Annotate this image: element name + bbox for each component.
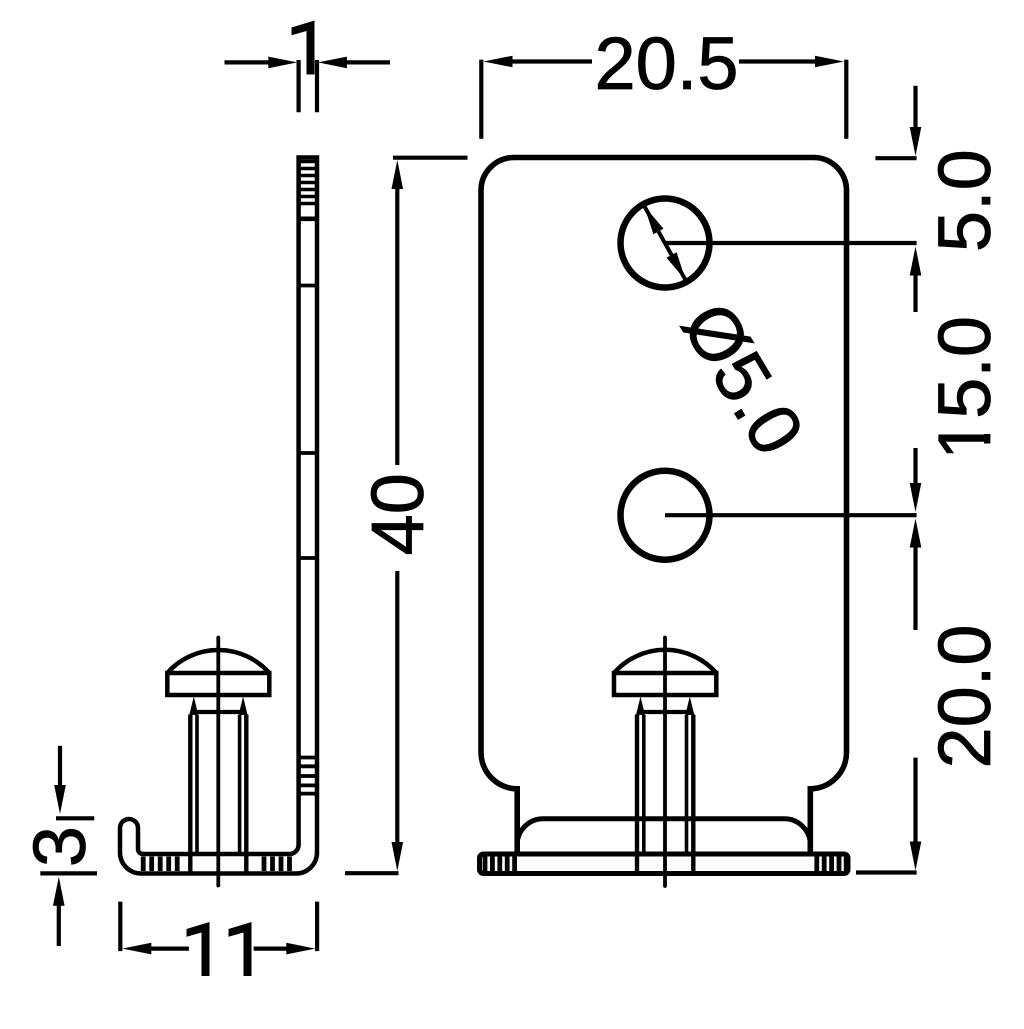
screw side view head	[167, 650, 269, 695]
screw front view head	[614, 650, 716, 695]
screw side view centerline	[216, 638, 220, 886]
svg-text:20.5: 20.5	[594, 22, 738, 105]
dimension 15.0	[910, 316, 1007, 630]
extension line foot bottom right	[856, 870, 917, 874]
dimension 40 (height)	[345, 158, 468, 874]
side view foot hatching	[143, 857, 289, 872]
dimension 11 (foot width)	[120, 902, 317, 976]
bracket front view plate outline	[481, 158, 847, 855]
svg-text:5.0: 5.0	[923, 149, 1006, 252]
side view lower hatch band	[299, 758, 317, 794]
bracket side view outline	[120, 158, 317, 874]
svg-text:20.0: 20.0	[923, 624, 1006, 768]
dimension 1 (thickness)	[225, 21, 391, 113]
extension line plate top edge	[875, 156, 916, 160]
dimension 20.0	[910, 624, 1007, 870]
screw front view centerline	[663, 638, 667, 887]
dimension 5.0	[910, 86, 1007, 312]
extension line hole 1 center	[665, 241, 917, 245]
svg-text:15.0: 15.0	[923, 316, 1006, 460]
screw side view shank	[189, 697, 247, 872]
dimension diameter line in hole 1	[644, 206, 685, 280]
label diameter 5.0	[666, 288, 820, 468]
extension line hole 2 center	[665, 513, 917, 517]
svg-text:40: 40	[356, 473, 439, 555]
front view foot hatching	[485, 857, 846, 872]
screw front view shank	[636, 697, 694, 872]
dimension 3 (foot height)	[18, 746, 101, 946]
front view foot band	[480, 854, 849, 874]
side view top hatch band	[299, 162, 317, 204]
hole 1	[621, 199, 710, 288]
hole 2	[621, 471, 710, 560]
side view division lines	[299, 219, 317, 558]
dimension 20.5 (plate width)	[481, 22, 846, 139]
svg-text:3: 3	[18, 826, 101, 867]
front view folded foot (pillow)	[517, 819, 810, 854]
